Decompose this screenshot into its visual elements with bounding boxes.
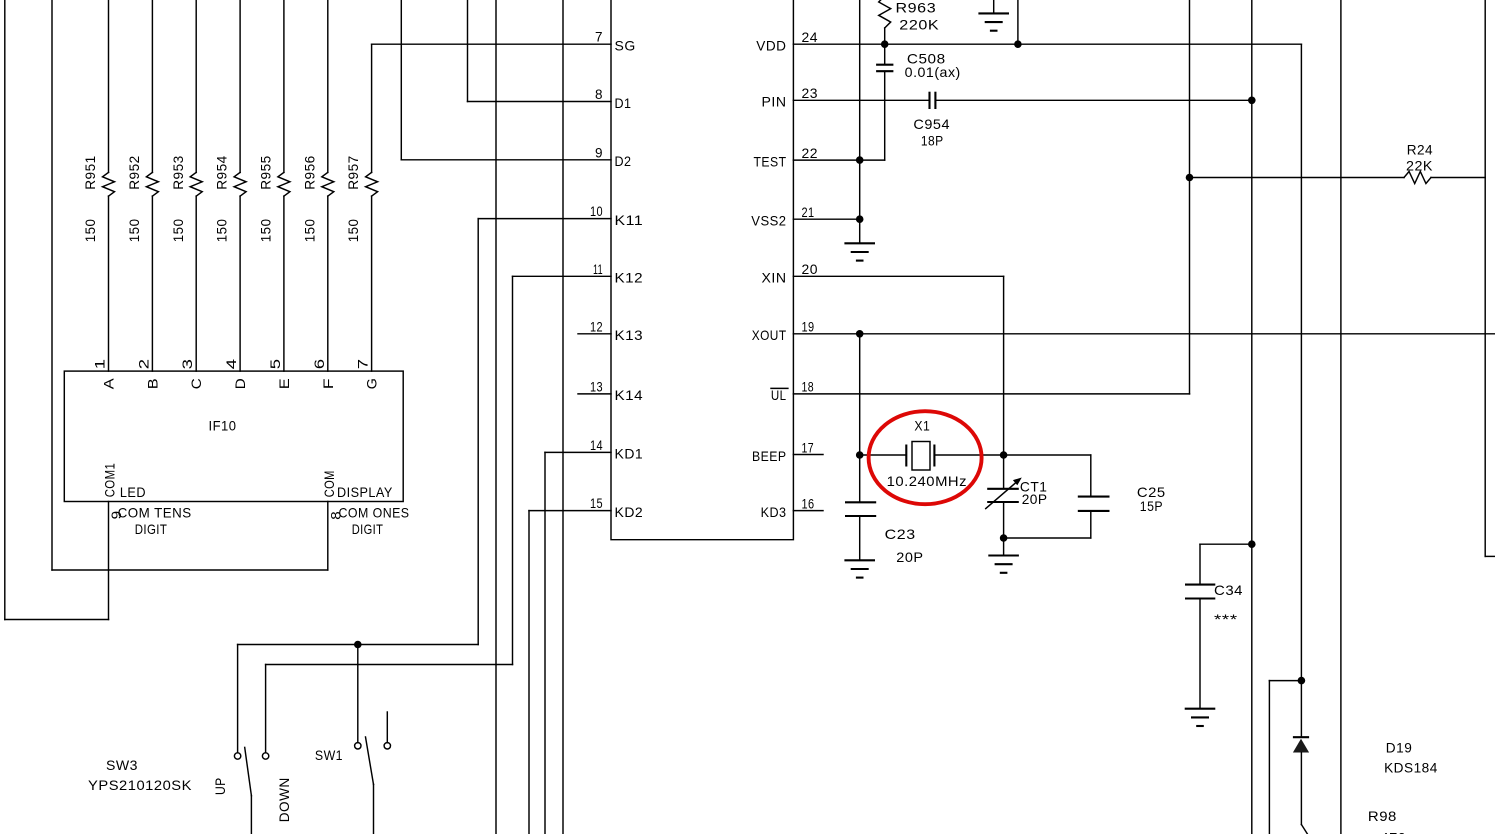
wire K12 net bottom horizontal [266,664,513,666]
wire KD2 net vertical [528,511,530,834]
svg-text:KD3: KD3 [761,504,787,520]
svg-text:R951: R951 [82,155,98,190]
ground below C34 [1185,708,1216,710]
svg-text:K12: K12 [615,270,644,286]
wire K11 net vertical [477,219,479,645]
svg-text:R952: R952 [126,155,142,190]
junction CT1/C25 ground node [1000,534,1008,542]
junction crystal left [856,451,864,459]
junction SW1 tap [354,641,362,649]
wire segment E bottom [283,196,285,371]
diode D19 [1293,736,1309,738]
junction crystal right / XIN branch [1000,451,1008,459]
resistor R957 [366,172,378,196]
svg-text:COM1: COM1 [102,463,118,498]
capacitor C34 [1185,584,1215,586]
wire TEST net (pin 22) [793,159,884,161]
switch SW3 UP blade [245,747,252,795]
junction VSS2 net [856,215,864,223]
stub pin 13 [578,393,611,395]
stub pin 17 BEEP [793,454,823,456]
wire UL branch vertical [1189,0,1191,394]
svg-text:COM TENS: COM TENS [118,504,192,520]
svg-text:BEEP: BEEP [752,448,787,464]
svg-text:12: 12 [590,318,603,334]
wire far right vertical [1484,0,1486,556]
resistor R98 (partial at bottom edge) [1301,825,1307,834]
svg-text:4: 4 [223,358,239,369]
svg-text:2: 2 [135,358,151,369]
svg-text:C954: C954 [913,116,950,132]
svg-text:20P: 20P [1022,491,1048,507]
wire COM1 pin drop [108,502,110,620]
wire R24 row right segment [1431,177,1485,179]
svg-text:A: A [101,378,117,390]
wire KD1 net vertical [544,452,546,834]
svg-text:R954: R954 [214,155,230,190]
display module U-IF10 box [64,371,403,501]
wire segment A bottom [108,196,110,371]
wire crystal left lead [860,454,907,456]
svg-text:3: 3 [179,358,195,369]
wire SG net horizontal [372,43,611,45]
svg-text:KD1: KD1 [615,446,644,462]
svg-text:D1: D1 [615,95,632,111]
wire segment F bottom [327,196,329,371]
svg-text:D: D [232,378,248,390]
resistor R952 [146,172,158,196]
wire D19 branch horizontal [1269,680,1301,682]
svg-text:5: 5 [267,358,283,369]
svg-text:YPS210120SK: YPS210120SK [88,777,192,793]
wire UL net (pin 18) [793,393,1189,395]
wire segment E top [283,0,285,172]
svg-text:D19: D19 [1386,740,1413,756]
wire segment B bottom [151,196,153,371]
wire R24 row left segment [1190,177,1405,179]
svg-text:DOWN: DOWN [276,777,292,822]
resistor R954 [234,172,246,196]
wire C34 top lead [1199,544,1201,584]
resistor R963 [879,0,891,28]
IC U1 (microcontroller) box [611,0,793,540]
wire XOUT branch down to crystal [859,334,861,503]
svg-text:DISPLAY: DISPLAY [337,484,393,500]
wire C34 branch horizontal [1200,543,1252,545]
capacitor C25 [1078,496,1110,498]
svg-text:23: 23 [802,85,819,101]
wire ground stub under CT1 [1003,538,1005,556]
wire C25 top lead [1090,455,1092,497]
overline of UL pin name [771,387,788,389]
svg-text:R963: R963 [896,0,937,16]
svg-text:K13: K13 [615,327,644,343]
svg-text:15: 15 [590,495,603,511]
svg-text:150: 150 [258,219,274,243]
svg-text:16: 16 [802,495,815,511]
wire D1 net vertical [467,0,469,102]
svg-text:24: 24 [802,29,819,45]
trimmer capacitor CT1 [987,488,1019,490]
svg-text:150: 150 [301,219,317,243]
svg-text:13: 13 [590,378,603,394]
wire K11 net bottom horizontal [238,644,479,646]
wire COM pin drop [327,502,329,571]
switch SW1 blade [366,737,374,784]
svg-text:G: G [364,378,380,390]
svg-text:R955: R955 [258,155,274,190]
wire XIN branch vertical [1003,276,1005,489]
svg-text:10: 10 [590,203,603,219]
svg-text:R24: R24 [1407,142,1433,158]
svg-text:22K: 22K [1406,158,1433,174]
wire ground branch vertical (top) [859,0,861,243]
svg-text:COM ONES: COM ONES [339,504,410,520]
wire VDD branch vertical (top right) [1017,0,1019,44]
wire VDD to C508 [884,44,886,64]
svg-text:20P: 20P [896,549,923,565]
wire bus vertical 3 [1251,0,1253,834]
wire net COM return (second vertical) [51,0,53,570]
wire C508 to TEST row [884,71,886,160]
svg-text:E: E [276,378,292,390]
svg-text:14: 14 [590,437,603,453]
wire D19 branch vertical [1268,681,1270,834]
svg-text:XIN: XIN [762,270,787,286]
svg-text:DIGIT: DIGIT [352,521,384,537]
wire far right horizontal exit [1485,555,1495,557]
junction C34 branch [1248,540,1256,548]
wire C25 bottom lead [1090,511,1092,538]
svg-text:17: 17 [802,439,815,455]
svg-text:X1: X1 [914,418,930,434]
wire D2 net horizontal [401,159,611,161]
wire PIN net left of C954 [793,99,929,101]
capacitor C508 [876,64,893,66]
svg-text:XOUT: XOUT [752,327,787,343]
wire K12 net horizontal to IC [513,275,612,277]
svg-text:SG: SG [615,38,636,54]
junction D19 branch [1298,677,1306,685]
wire C25 bottom to ground node [1004,537,1091,539]
wire segment A top [108,0,110,172]
wire segment D bottom [239,196,241,371]
svg-text:150: 150 [345,219,361,243]
wire segment G bottom [371,196,373,371]
wire KD1 net horizontal [545,451,611,453]
svg-text:19: 19 [802,319,815,335]
wire CT1 to ground node [1003,502,1005,538]
switch SW1 right contact [384,743,390,749]
svg-text:UP: UP [212,777,228,795]
junction TEST net [856,156,864,164]
wire segment B top [151,0,153,172]
svg-text:1: 1 [92,358,108,369]
svg-text:R956: R956 [301,155,317,190]
wire KD2 net horizontal [529,510,611,512]
junction VDD branch [1014,40,1022,48]
stub pin 12 [578,333,611,335]
wire VDD branch down right [1300,44,1302,737]
svg-text:18: 18 [802,379,815,395]
svg-text:18P: 18P [921,133,944,149]
svg-text:KD2: KD2 [615,504,644,520]
wire K12 net vertical [512,276,514,664]
svg-text:150: 150 [170,219,186,243]
svg-text:150: 150 [126,219,142,243]
switch SW1 left contact [355,743,361,749]
svg-text:10.240MHz: 10.240MHz [887,473,968,489]
svg-text:470: 470 [1381,830,1407,834]
svg-text:UL: UL [771,387,787,403]
resistor R955 [278,172,290,196]
svg-text:22: 22 [802,145,819,161]
wire net COM1 return (left outer vertical) [4,0,6,620]
ground top right [993,0,995,13]
svg-text:K14: K14 [615,387,644,403]
wire below UP switch [250,796,252,834]
resistor R953 [190,172,202,196]
svg-text:0.01(ax): 0.01(ax) [905,64,961,80]
junction UL/R24 [1186,174,1194,182]
wire bus vertical 2 [562,0,564,834]
svg-text:F: F [320,378,336,390]
svg-text:IF10: IF10 [209,418,237,434]
svg-text:PIN: PIN [762,94,787,110]
junction PIN net [1248,97,1256,105]
resistor R956 [322,172,334,196]
svg-text:150: 150 [214,219,230,243]
wire segment G top [371,44,373,172]
wire D1 net horizontal [468,101,612,103]
svg-text:11: 11 [593,261,603,277]
ground below CT1 [988,554,1019,556]
stub above SW1 right contact [386,712,388,743]
ground below C23 [844,559,875,561]
stub pin 16 KD3 [793,510,823,512]
svg-text:20: 20 [802,261,819,277]
capacitor C954 [928,92,930,109]
ground below VSS2 [844,242,875,244]
wire segment C bottom [195,196,197,371]
wire C34 bottom lead [1199,599,1201,709]
svg-text:VDD: VDD [756,38,786,54]
wire net COM1 return (bottom horizontal) [5,619,109,621]
svg-text:8: 8 [595,86,603,102]
svg-text:R957: R957 [345,155,361,190]
svg-text:LED: LED [120,484,146,500]
wire to UP switch [237,645,239,753]
wire PIN net right of C954 [935,99,1251,101]
svg-text:D2: D2 [615,153,632,169]
svg-text:KDS184: KDS184 [1384,759,1438,775]
wire below SW1 [373,784,375,834]
svg-text:6: 6 [311,358,327,369]
wire K11 net horizontal to IC [478,218,611,220]
svg-text:C34: C34 [1214,582,1243,598]
highlight ellipse around X1 (red) [869,411,982,504]
svg-text:SW1: SW1 [315,747,343,763]
wire VDD net (pin 24) [793,43,1301,45]
svg-text:R953: R953 [170,155,186,190]
svg-text:SW3: SW3 [106,757,138,773]
wire C23 to ground [859,516,861,560]
wire to DOWN switch [265,665,267,753]
svg-text:VSS2: VSS2 [751,213,786,229]
svg-text:K11: K11 [615,212,644,228]
wire net COM return (horizontal) [52,569,328,571]
svg-text:TEST: TEST [754,153,787,169]
svg-text:C23: C23 [885,526,916,542]
svg-text:9: 9 [595,144,603,160]
svg-text:***: *** [1214,611,1238,627]
wire XIN net (pin 20) [793,275,1003,277]
svg-text:R98: R98 [1368,808,1397,824]
svg-text:7: 7 [355,358,371,369]
wire XOUT net (pin 19) [793,333,1495,335]
svg-text:220K: 220K [899,17,939,33]
svg-text:21: 21 [802,204,815,220]
svg-text:7: 7 [595,29,603,45]
wire crystal right lead [934,454,1003,456]
svg-text:150: 150 [82,219,98,243]
switch SW3 UP contact [234,753,240,759]
svg-text:15P: 15P [1140,498,1163,514]
junction VDD/R963/C508 [881,40,889,48]
switch SW3 DOWN contact [262,753,268,759]
svg-text:COM: COM [321,470,337,497]
wire below D19 [1300,753,1302,825]
wire segment F top [327,0,329,172]
wire SW1 feed vertical [357,645,359,743]
wire bus vertical 4 [1340,0,1342,834]
crystal X1 [905,445,907,467]
wire bus vertical 1 [495,0,497,834]
wire segment D top [239,0,241,172]
capacitor C23 [845,501,876,503]
svg-text:DIGIT: DIGIT [135,521,168,537]
svg-text:B: B [144,378,160,390]
svg-text:C: C [188,378,204,390]
wire D2 net vertical [400,0,402,160]
junction XOUT net [856,330,864,338]
wire crystal right to C25 top [1004,454,1091,456]
resistor R951 [103,172,115,196]
wire VSS2 net (pin 21) [793,218,859,220]
resistor R24 [1404,172,1431,184]
wire segment C top [195,0,197,172]
